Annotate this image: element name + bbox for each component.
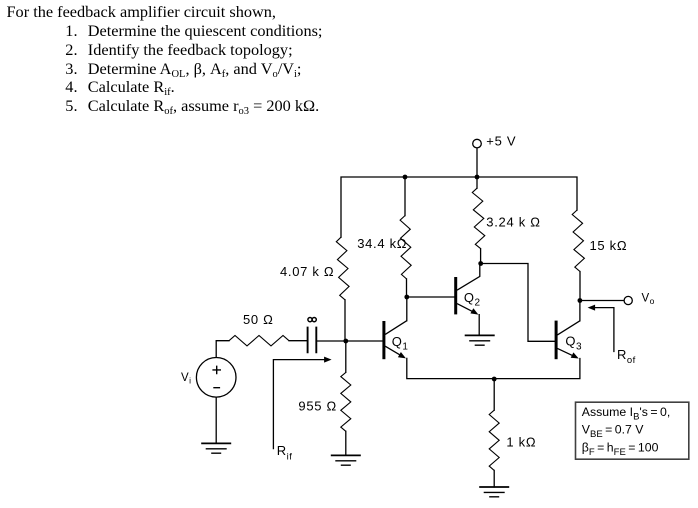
svg-text:Rif: Rif	[277, 443, 293, 463]
svg-text:Q3: Q3	[565, 334, 582, 353]
svg-text:50 Ω: 50 Ω	[243, 312, 274, 327]
svg-text:Vi: Vi	[181, 372, 192, 386]
svg-text:Vo: Vo	[642, 292, 655, 306]
svg-text:1 kΩ: 1 kΩ	[506, 435, 536, 450]
svg-text:34.4 kΩ: 34.4 kΩ	[357, 236, 407, 251]
svg-text:Q2: Q2	[464, 290, 481, 309]
svg-text:15 kΩ: 15 kΩ	[590, 238, 628, 253]
svg-text:4.07 k Ω: 4.07 k Ω	[280, 264, 334, 279]
svg-text:Rof: Rof	[617, 347, 636, 366]
svg-text:955 Ω: 955 Ω	[298, 399, 337, 414]
svg-text:+5 V: +5 V	[486, 134, 516, 149]
svg-text:Q1: Q1	[392, 334, 409, 353]
svg-text:3.24 k Ω: 3.24 k Ω	[486, 215, 540, 230]
